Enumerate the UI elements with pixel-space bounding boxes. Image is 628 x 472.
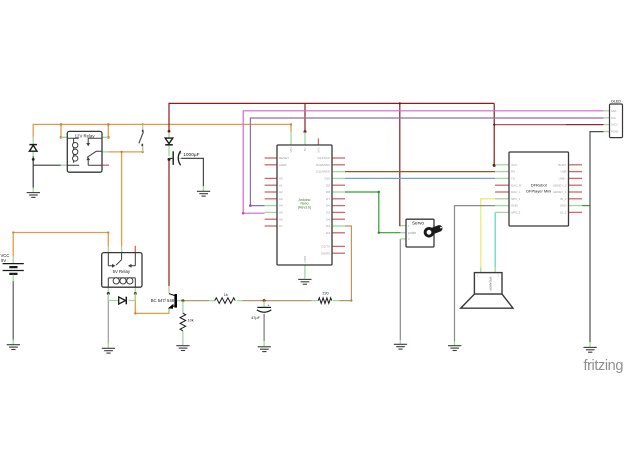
svg-text:USB -: USB - bbox=[558, 177, 566, 181]
svg-text:ADKEY_2: ADKEY_2 bbox=[553, 183, 567, 187]
svg-text:5V Relay: 5V Relay bbox=[113, 269, 131, 274]
svg-text:VIN: VIN bbox=[289, 148, 293, 153]
svg-text:pulse: pulse bbox=[408, 231, 416, 235]
svg-text:IO_1: IO_1 bbox=[560, 211, 567, 215]
svg-text:3VCC: 3VCC bbox=[611, 123, 618, 127]
switch S1 bbox=[139, 124, 144, 151]
op module Servo bbox=[400, 219, 443, 247]
svg-text:220: 220 bbox=[322, 291, 328, 295]
transistor Q1 BC547 bbox=[151, 286, 185, 313]
svg-text:Servo: Servo bbox=[412, 220, 424, 225]
svg-text:IO_2: IO_2 bbox=[560, 197, 567, 201]
svg-text:BC 547/ 548: BC 547/ 548 bbox=[151, 298, 175, 303]
op IC U1 Arduino Nano bbox=[265, 132, 345, 279]
wire tan 1k to transistor base bbox=[183, 300, 209, 302]
wire green DFPlayer GND right to gnd bus bbox=[582, 205, 590, 207]
svg-text:1k: 1k bbox=[224, 293, 228, 297]
svg-text:A5: A5 bbox=[279, 211, 283, 215]
svg-text:A3: A3 bbox=[279, 197, 283, 201]
svg-text:D8: D8 bbox=[326, 190, 330, 194]
wire orange relay coil pin1 drop bbox=[60, 124, 62, 137]
svg-text:DAC_L: DAC_L bbox=[511, 190, 521, 194]
wire dark-gray OLED GND down to ground bbox=[590, 132, 604, 343]
wire dark-red branch to OLED VCC bbox=[494, 124, 566, 126]
svg-text:SDA: SDA bbox=[611, 109, 617, 113]
svg-text:A2: A2 bbox=[279, 190, 283, 194]
svg-text:A7: A7 bbox=[279, 224, 283, 228]
wire blue Arduino D10 to DFPlayer TX bbox=[345, 177, 495, 179]
wire orange relay common pin drop bbox=[107, 124, 109, 137]
relay K1 12V Relay bbox=[61, 131, 109, 172]
svg-text:D13/SCK: D13/SCK bbox=[317, 156, 330, 160]
svg-text:5V: 5V bbox=[303, 148, 307, 152]
ground (5V relay) bbox=[102, 343, 115, 354]
wire orange 12V relay to 5V relay coil bbox=[121, 152, 123, 247]
node orange junctions bbox=[12, 123, 292, 314]
svg-text:DFPlayer Mini: DFPlayer Mini bbox=[526, 188, 551, 193]
wire tan Arduino D3 down to 220 resistor rail bbox=[339, 226, 351, 301]
wire black diode node down to ground bbox=[32, 156, 34, 189]
wire yellow DFPlayer SPK1 to speaker bbox=[481, 199, 495, 268]
resistor R1 10k bbox=[180, 301, 194, 346]
op IC U2 DFRobot DFPlayer Mini bbox=[495, 152, 582, 226]
svg-text:D11/MOSI: D11/MOSI bbox=[316, 170, 330, 174]
svg-text:ADKEY_1: ADKEY_1 bbox=[553, 190, 567, 194]
svg-text:9V: 9V bbox=[1, 258, 6, 263]
svg-text:BUSY: BUSY bbox=[558, 163, 566, 167]
svg-text:SPK_2: SPK_2 bbox=[511, 211, 521, 215]
wire orange relay NO pin to switch bottom bbox=[108, 147, 142, 152]
wire gray 5V relay pin to ground bbox=[107, 294, 109, 345]
op module OLED display bbox=[604, 100, 623, 138]
svg-text:PGND: PGND bbox=[611, 130, 619, 134]
svg-text:A1: A1 bbox=[279, 183, 283, 187]
resistor R2 1k bbox=[209, 293, 243, 303]
svg-text:SCL: SCL bbox=[611, 116, 617, 120]
svg-text:SPEAKER: SPEAKER bbox=[489, 276, 493, 291]
svg-text:D6: D6 bbox=[326, 204, 330, 208]
svg-text:+: + bbox=[267, 304, 269, 308]
diode D3 flyback across relay coil bbox=[108, 294, 135, 305]
wire dark-red drop to Arduino 5V bbox=[304, 103, 306, 131]
wire dark-red 5V rail bbox=[169, 103, 494, 131]
wire green Arduino D8 to servo pulse bbox=[345, 192, 401, 233]
svg-text:D10: D10 bbox=[324, 177, 330, 181]
capacitor C2 47uF bbox=[251, 299, 271, 320]
ground (OLED/DFPlayer GND bus) bbox=[584, 342, 597, 352]
wire black 1000uF to ground bbox=[181, 158, 203, 187]
svg-text:SPK_1: SPK_1 bbox=[511, 197, 521, 201]
wire dark-gray battery minus to ground bbox=[12, 281, 14, 341]
capacitor C1 1000uF bbox=[169, 151, 200, 165]
wire orange 12V rail with drop to diode and drop to Arduino VIN bbox=[33, 124, 291, 136]
svg-text:D0/RX: D0/RX bbox=[321, 251, 330, 255]
ground (10k) bbox=[176, 346, 189, 351]
ground (under 1000uF) bbox=[197, 186, 210, 196]
ground (Arduino GND) bbox=[298, 279, 311, 284]
diode D1 top-left (cathode up) bbox=[29, 137, 37, 157]
svg-text:AREF: AREF bbox=[279, 163, 287, 167]
svg-text:GND: GND bbox=[511, 204, 519, 208]
svg-text:10k: 10k bbox=[188, 319, 194, 323]
svg-text:D5: D5 bbox=[326, 211, 330, 215]
svg-text:A6: A6 bbox=[279, 217, 283, 221]
svg-text:GND: GND bbox=[303, 255, 307, 263]
svg-text:TX: TX bbox=[511, 177, 515, 181]
battery VCC 9V bbox=[1, 253, 24, 281]
diode D2 (cathode down, at 5V node) bbox=[165, 132, 173, 156]
wire tan 220 to 47uF node to 1k bbox=[243, 300, 312, 302]
ground (battery) bbox=[7, 340, 20, 350]
wire dark-red drop to DFPlayer VCC bbox=[493, 103, 495, 165]
svg-text:DFRobot: DFRobot bbox=[531, 183, 548, 188]
WIRES2 bbox=[1, 124, 340, 353]
svg-text:OLED: OLED bbox=[611, 100, 622, 104]
svg-text:DAC_R: DAC_R bbox=[511, 183, 522, 187]
wire teal DFPlayer SPK2 to speaker bbox=[494, 212, 496, 267]
svg-text:1000µF: 1000µF bbox=[183, 152, 199, 158]
svg-text:D4: D4 bbox=[326, 217, 330, 221]
wire purple A4 net to OLED pin2 bbox=[250, 118, 603, 206]
svg-text:A4: A4 bbox=[279, 204, 283, 208]
wire gray 47uF to ground bbox=[263, 314, 265, 341]
ground (under diode D1) bbox=[27, 188, 40, 198]
wire gray servo GND to ground bbox=[399, 239, 401, 340]
svg-text:A0: A0 bbox=[279, 177, 283, 181]
wire orange 5V relay coil2 to transistor emitter bbox=[135, 294, 169, 314]
resistor R3 220 bbox=[312, 291, 340, 303]
wire brown Arduino D11 to DFPlayer RX bbox=[345, 171, 495, 173]
wire dark-red drop to servo V+ bbox=[399, 103, 402, 225]
svg-text:D1/TX: D1/TX bbox=[321, 245, 330, 249]
svg-text:47µF: 47µF bbox=[251, 316, 260, 320]
op speaker LS1 bbox=[461, 267, 513, 308]
wire pink A5 net to OLED pin1 bbox=[243, 111, 603, 213]
svg-text:D12/MISO: D12/MISO bbox=[316, 163, 331, 167]
svg-text:fritzing: fritzing bbox=[584, 358, 624, 374]
node dark-red junctions bbox=[168, 102, 496, 167]
wire dark-red diode node down to transistor collector bbox=[168, 159, 170, 286]
relay K2 5V Relay bbox=[102, 246, 142, 295]
wire orange battery plus to 5V relay bbox=[13, 233, 108, 257]
svg-text:D3: D3 bbox=[326, 224, 330, 228]
svg-text:VCC: VCC bbox=[511, 163, 518, 167]
svg-text:3V3: 3V3 bbox=[316, 147, 320, 153]
svg-text:D2: D2 bbox=[326, 231, 330, 235]
ground (47uF) bbox=[258, 341, 271, 352]
svg-text:RX: RX bbox=[511, 170, 515, 174]
wire gray DFPlayer GND left to ground bbox=[455, 206, 496, 342]
ground (servo) bbox=[394, 340, 407, 349]
svg-text:+: + bbox=[180, 152, 182, 156]
svg-text:(Rev3.b): (Rev3.b) bbox=[298, 205, 311, 209]
wire black diode node to 12V relay coil2 bbox=[33, 164, 61, 166]
svg-text:D9: D9 bbox=[326, 183, 330, 187]
svg-text:D7: D7 bbox=[326, 197, 330, 201]
svg-text:GND: GND bbox=[560, 204, 568, 208]
ground (DFPlayer left GND) bbox=[448, 342, 461, 351]
svg-text:RESET: RESET bbox=[279, 156, 289, 160]
svg-text:USB: USB bbox=[560, 170, 566, 174]
